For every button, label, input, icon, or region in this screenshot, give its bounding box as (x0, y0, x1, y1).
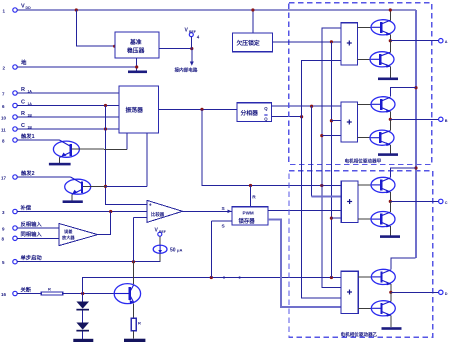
svg-text:R: R (21, 87, 25, 93)
ground bar under Q2 (63, 200, 83, 203)
transistor Q10 channel D top (358, 269, 395, 292)
pin 16 shutdown terminal 关断 (1, 285, 32, 296)
svg-text:单步启动: 单步启动 (21, 254, 43, 262)
wire shutdown node up to enable line (83, 278, 342, 294)
wire regulator ground stem (136, 58, 138, 71)
svg-text:V: V (21, 4, 25, 10)
wire ground pin (17, 66, 137, 68)
svg-text:REF: REF (189, 30, 196, 34)
ground channel B (378, 153, 398, 156)
svg-text:基准: 基准 (129, 38, 142, 46)
wire latch output to gate C (268, 210, 341, 212)
comparator 比较器 (147, 200, 183, 222)
svg-text:反相输入: 反相输入 (21, 220, 43, 228)
transistor Q2 触发2 (65, 177, 147, 200)
svg-text:锁存器: 锁存器 (239, 217, 256, 225)
svg-text:C: C (21, 99, 25, 105)
dashed box driver A (289, 3, 432, 165)
svg-text:补偿: 补偿 (20, 203, 32, 211)
transistor Q5 channel A bottom (358, 41, 395, 78)
svg-text:B: B (445, 119, 448, 123)
wire vertical C bus to comparator (106, 106, 147, 205)
pin 7 R1A terminal (2, 87, 32, 97)
svg-text:地: 地 (21, 59, 27, 67)
pin 2 ground terminal (3, 59, 28, 71)
wire channel B collector feed (390, 88, 416, 97)
terminal Vref lower (155, 228, 166, 237)
wire error amp output to comp pin (98, 212, 111, 235)
wire Q bus vertical (311, 106, 313, 196)
diode D1 (76, 294, 89, 311)
svg-text:μA: μA (177, 247, 182, 252)
node output B (389, 118, 392, 121)
ground channel D (382, 327, 402, 330)
svg-text:DD: DD (26, 6, 32, 10)
undervoltage lockout box 欠压锁定 (252, 10, 254, 33)
terminal output A (439, 39, 448, 45)
svg-text:电机相位驱动器乙: 电机相位驱动器乙 (341, 331, 378, 338)
svg-text:A: A (445, 40, 448, 44)
svg-text:误差: 误差 (64, 228, 73, 235)
wire clock bus vertical (322, 28, 341, 288)
wire enable bus vertical (330, 42, 332, 278)
svg-text:分相器: 分相器 (241, 109, 259, 117)
pin 3 comp terminal 补偿 (2, 203, 32, 215)
node VDD junction to regulator (75, 8, 78, 11)
svg-text:关断: 关断 (21, 285, 32, 293)
svg-text:+: + (149, 203, 152, 209)
wire regulator Vref output (159, 48, 192, 50)
arrow to internal circuits (191, 49, 193, 62)
wire oscillator stub to Q1 collector (126, 133, 128, 150)
svg-text:C: C (445, 201, 448, 205)
svg-text:D: D (445, 292, 448, 296)
wire Q output to gate B (272, 105, 342, 107)
node output A (389, 39, 392, 42)
svg-text:触发1: 触发1 (20, 132, 35, 140)
pin 1 VDD terminal (3, 4, 32, 14)
svg-text:R: R (252, 195, 256, 201)
transistor Q8 channel C top (358, 177, 395, 201)
pin 6 C1A terminal (2, 99, 32, 109)
svg-text:17: 17 (1, 175, 7, 180)
svg-text:PWM: PWM (243, 211, 254, 216)
svg-text:16: 16 (1, 292, 7, 297)
pin 8 trigger1 terminal 触发1 (2, 132, 35, 143)
ground bar under Q1 (49, 163, 71, 166)
op-amp error amplifier 误差放大器 (59, 224, 98, 246)
wire oscillator stub to Q2 collector (146, 133, 148, 186)
wire output A (390, 40, 438, 42)
wire Qbar output (272, 116, 302, 118)
PWM latch box PWM锁存器 (250, 186, 252, 207)
wire comparator lower input from sense node (134, 217, 147, 219)
svg-text:电机相位驱动器甲: 电机相位驱动器甲 (345, 157, 382, 164)
pin 12 noninverting input terminal 同相输入 (2, 230, 43, 241)
node bus on C1A (104, 104, 107, 107)
current source 50uA (153, 236, 182, 261)
wire comparator output to latch S (183, 210, 233, 212)
ground bar under regulator (128, 71, 147, 74)
svg-text:振荡器: 振荡器 (126, 106, 144, 114)
svg-text:10: 10 (1, 115, 7, 120)
or-gate G1 (341, 23, 358, 65)
svg-text:REF: REF (159, 230, 166, 234)
wire VDD rail top (17, 9, 416, 11)
transistor Q4 channel A top (358, 8, 396, 40)
svg-text:C: C (21, 123, 25, 129)
pin 17 trigger2 terminal 触发2 (1, 169, 35, 180)
svg-text:R: R (48, 286, 51, 291)
wire enable stub gate C (331, 217, 341, 219)
diode D2 (76, 311, 89, 339)
svg-text:R: R (138, 321, 141, 326)
transistor Q7 channel B bottom (358, 119, 395, 153)
terminal output D (439, 290, 448, 296)
transistor Q6 channel B top (358, 97, 396, 120)
node bus on C1B (104, 127, 107, 130)
wire clock stub gate B (322, 135, 341, 137)
svg-text:接内部电路: 接内部电路 (175, 67, 198, 74)
wire output B (390, 118, 438, 120)
pin 11 C1B terminal (1, 123, 32, 133)
pin 5 start terminal 单步启动 (2, 254, 42, 265)
wire latch output to gate D (268, 220, 341, 307)
wire channel C collector feed (390, 168, 416, 178)
or-gate G4 (341, 271, 358, 313)
wire to voltage regulator input (76, 10, 115, 46)
VDD rail right (415, 10, 417, 258)
wire Qbar bus vertical (302, 61, 341, 298)
svg-text:11: 11 (1, 127, 6, 132)
wire Q stub gate C (312, 195, 342, 197)
transistor Q3 power (114, 262, 140, 319)
svg-text:同相输入: 同相输入 (21, 230, 43, 238)
ground channel C (380, 235, 400, 238)
ground under diodes (73, 339, 93, 342)
pin 10 R1B terminal (1, 111, 32, 121)
terminal output C (439, 199, 448, 205)
terminal Vref top (185, 28, 200, 40)
wire clock line down and right to gate C (202, 109, 341, 185)
wire latch lower-left input (211, 220, 232, 222)
resistor R1 (41, 286, 62, 295)
wire output D (391, 291, 439, 293)
wire output C (390, 200, 438, 202)
voltage regulator U1 基准稳压器 (115, 32, 159, 58)
svg-text:R: R (21, 111, 25, 117)
transistor Q11 channel D bottom (358, 292, 395, 327)
wire oscillator output (159, 108, 238, 110)
oscillator box 振荡器 (119, 86, 159, 133)
svg-text:稳压器: 稳压器 (127, 47, 145, 55)
node output C (389, 200, 392, 203)
transistor Q1 触发1 (53, 140, 126, 163)
dashed box driver B (289, 171, 433, 338)
wire UVLO output enable (272, 41, 341, 43)
ground under R2 (124, 339, 145, 342)
svg-text:放大器: 放大器 (61, 234, 75, 241)
or-gate G3 (341, 181, 358, 223)
ground channel A (378, 78, 398, 81)
phase splitter box 分相器 (237, 103, 272, 122)
svg-text:50: 50 (170, 247, 176, 253)
svg-text:比较器: 比较器 (151, 211, 165, 218)
svg-text:触发2: 触发2 (20, 169, 35, 177)
wire enable stub gate B (331, 120, 341, 122)
resistor R2 emitter (131, 318, 141, 331)
pin 9 inverting input terminal 反相输入 (2, 220, 42, 231)
or-gate G2 (341, 102, 358, 142)
node output D (389, 291, 392, 294)
terminal output B (439, 117, 448, 123)
svg-text:欠压锁定: 欠压锁定 (237, 39, 260, 47)
wire channel D collector feed (391, 258, 416, 269)
transistor Q9 channel C bottom (358, 201, 395, 235)
